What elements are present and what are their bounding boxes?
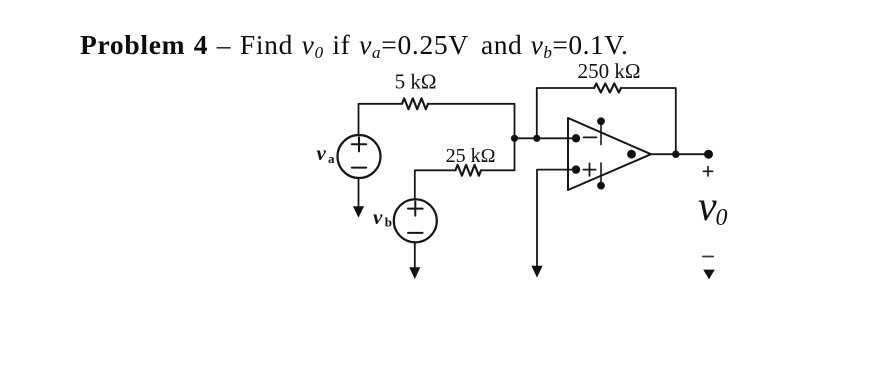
- svg-text:a: a: [328, 151, 335, 166]
- svg-text:v: v: [317, 141, 327, 165]
- svg-text:5 kΩ: 5 kΩ: [395, 69, 437, 93]
- svg-text:v: v: [373, 205, 383, 229]
- svg-text:b: b: [385, 215, 392, 230]
- svg-text:250 kΩ: 250 kΩ: [578, 59, 641, 83]
- svg-text:25 kΩ: 25 kΩ: [446, 145, 496, 167]
- svg-text:0: 0: [716, 205, 728, 231]
- svg-text:v: v: [698, 184, 717, 230]
